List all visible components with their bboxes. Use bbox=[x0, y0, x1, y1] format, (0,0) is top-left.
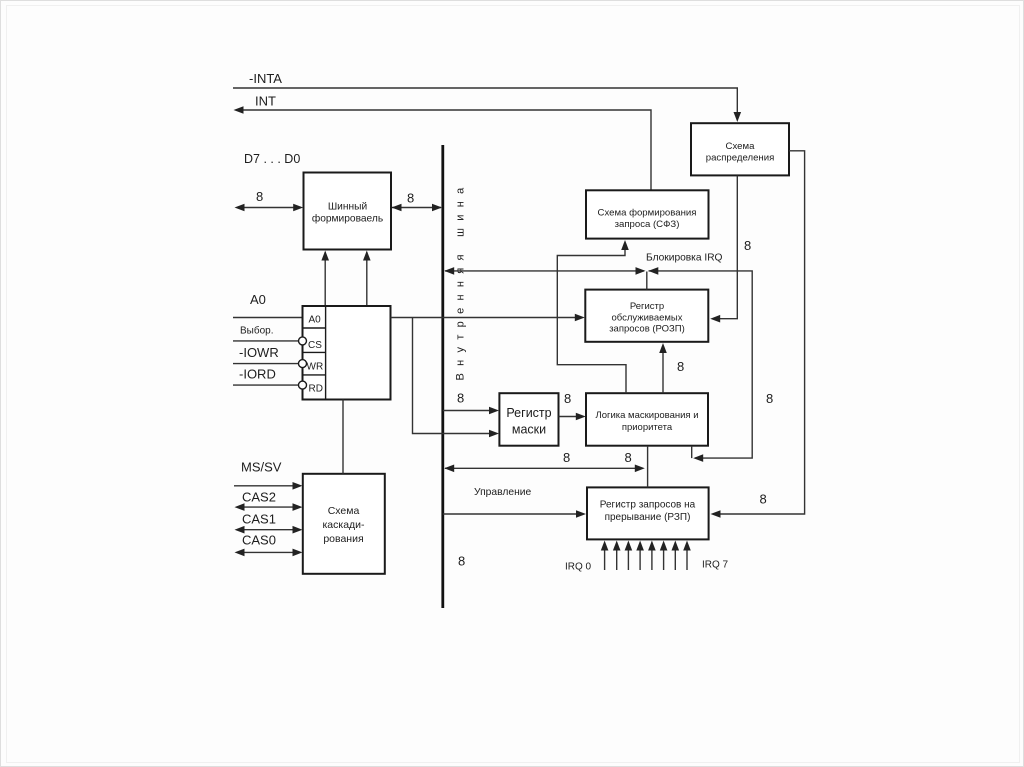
arrow left INT bbox=[234, 106, 244, 114]
svg-text:прерывание (РЗП): прерывание (РЗП) bbox=[605, 512, 691, 523]
wire CS input bbox=[233, 340, 298, 342]
svg-text:Регистр: Регистр bbox=[506, 406, 551, 420]
wire IRQ6 bbox=[674, 548, 676, 570]
svg-text:8: 8 bbox=[564, 391, 571, 406]
svg-text:маски: маски bbox=[512, 423, 546, 437]
svg-text:8: 8 bbox=[563, 450, 570, 465]
block Схема распределения bbox=[691, 123, 789, 175]
svg-text:8: 8 bbox=[625, 450, 632, 465]
svg-text:8: 8 bbox=[744, 238, 751, 253]
wire bus to РЗП left bbox=[443, 513, 582, 515]
wire блокировка right segment bbox=[649, 271, 753, 458]
svg-text:распределения: распределения bbox=[706, 153, 775, 164]
svg-text:-IOWR: -IOWR bbox=[239, 345, 279, 360]
svg-text:8: 8 bbox=[256, 189, 263, 204]
svg-text:CAS1: CAS1 bbox=[242, 512, 276, 527]
wire блокировка to РОЗП top bbox=[646, 272, 648, 290]
svg-text:A0: A0 bbox=[250, 292, 266, 307]
svg-text:Логика маскирования и: Логика маскирования и bbox=[595, 410, 698, 421]
svg-text:IRQ 0: IRQ 0 bbox=[565, 562, 592, 573]
wire распределения right to РЗП right bbox=[713, 151, 805, 514]
svg-text:IRQ 7: IRQ 7 bbox=[702, 560, 729, 571]
svg-text:WR: WR bbox=[307, 362, 324, 373]
svg-text:Выбор.: Выбор. bbox=[240, 325, 274, 337]
svg-text:Внутренняя шина: Внутренняя шина bbox=[455, 181, 467, 381]
wire IRQ7 bbox=[686, 548, 688, 570]
svg-text:CAS0: CAS0 bbox=[242, 533, 276, 548]
wire IRQ4 bbox=[651, 548, 653, 570]
wire RD input bbox=[233, 384, 298, 386]
pin CS inversion bubble bbox=[299, 337, 307, 345]
internal bus (Внутренняя шина) bbox=[441, 145, 444, 608]
svg-text:Схема: Схема bbox=[726, 141, 756, 152]
wire control block to bus driver (2 verticals) bbox=[324, 252, 326, 306]
block РОЗП bbox=[585, 290, 708, 342]
svg-text:8: 8 bbox=[766, 391, 773, 406]
wire IRQ0 bbox=[604, 548, 606, 570]
wire логика to РЗП top bbox=[647, 446, 649, 488]
svg-text:Схема формирования: Схема формирования bbox=[598, 208, 697, 219]
svg-text:Схема: Схема bbox=[328, 505, 360, 517]
svg-text:8: 8 bbox=[407, 191, 414, 206]
svg-text:A0: A0 bbox=[309, 315, 322, 326]
wire priority logic to СФЗ (Z path) bbox=[557, 243, 626, 393]
svg-text:Регистр: Регистр bbox=[630, 301, 664, 312]
wire IRQ5 bbox=[663, 548, 665, 570]
svg-text:запросов (РОЗП): запросов (РОЗП) bbox=[609, 324, 685, 335]
wire распределения bottom to РОЗП right bbox=[713, 176, 737, 319]
svg-text:каскади-: каскади- bbox=[322, 519, 365, 531]
block control/read-write logic with pins A0 CS WR RD bbox=[303, 306, 391, 400]
svg-text:CS: CS bbox=[308, 340, 322, 351]
wire control block to bus driver v2 bbox=[366, 252, 368, 306]
wire IRQ3 bbox=[639, 548, 641, 570]
block СФЗ bbox=[586, 190, 709, 238]
svg-text:MS/SV: MS/SV bbox=[241, 460, 282, 475]
svg-text:Управление: Управление bbox=[474, 487, 532, 498]
wire branch down to mask register bbox=[413, 318, 496, 434]
arrow down into Схема распределения bbox=[734, 112, 742, 122]
svg-text:CAS2: CAS2 bbox=[242, 490, 276, 505]
wire -INTA from CPU to Схема распределения top bbox=[233, 88, 737, 114]
svg-text:8: 8 bbox=[677, 359, 684, 374]
wire CAS1 double arrow bbox=[238, 529, 299, 531]
wire IRQ1 bbox=[616, 548, 618, 570]
pin WR inversion bubble bbox=[299, 360, 307, 368]
svg-text:8: 8 bbox=[457, 391, 464, 406]
wire IRQ2 bbox=[627, 548, 629, 570]
block РЗП bbox=[587, 487, 709, 539]
wire CAS0 double arrow bbox=[238, 551, 299, 553]
wire data bus right double arrow bbox=[392, 207, 441, 209]
svg-text:D7 . . . D0: D7 . . . D0 bbox=[244, 152, 300, 166]
wire data bus left double arrow bbox=[238, 207, 301, 209]
wire mask register to priority logic bbox=[559, 416, 583, 418]
pin RD inversion bubble bbox=[299, 381, 307, 389]
block Логика маскирования и приоритета bbox=[586, 393, 708, 446]
svg-text:формироваель: формироваель bbox=[312, 213, 383, 225]
svg-text:-INTA: -INTA bbox=[249, 71, 282, 86]
block Регистр маски bbox=[499, 393, 558, 446]
svg-text:обслуживаемых: обслуживаемых bbox=[611, 313, 682, 324]
svg-text:запроса (СФЗ): запроса (СФЗ) bbox=[615, 219, 680, 230]
wire stub логика bottom bbox=[691, 446, 693, 458]
wire cascade block to control block bbox=[342, 400, 344, 474]
wire CAS2 double arrow bbox=[238, 506, 299, 508]
svg-text:INT: INT bbox=[255, 94, 276, 109]
wire bus to mask register bbox=[443, 410, 495, 412]
svg-text:8: 8 bbox=[760, 492, 767, 507]
wire блокировка bus segment double arrow bbox=[445, 270, 644, 272]
svg-text:Шинный: Шинный bbox=[328, 202, 367, 213]
wire управление double arrow bbox=[445, 467, 643, 469]
svg-text:Регистр запросов на: Регистр запросов на bbox=[600, 500, 696, 511]
wire A0 input bbox=[233, 317, 303, 319]
wire MS/SV input bbox=[234, 485, 299, 487]
wire INT from СФЗ top to CPU bbox=[237, 110, 651, 190]
block Шинный формироваель bbox=[304, 173, 392, 250]
wire priority logic to РОЗП bottom bbox=[662, 346, 664, 393]
svg-text:рования: рования bbox=[323, 533, 363, 545]
svg-text:приоритета: приоритета bbox=[622, 422, 673, 433]
wire control block right output to РОЗП left bbox=[391, 317, 582, 319]
block Схема каскадирования bbox=[303, 474, 385, 574]
svg-text:8: 8 bbox=[458, 554, 465, 569]
wire WR input bbox=[233, 363, 298, 365]
svg-text:Блокировка IRQ: Блокировка IRQ bbox=[646, 253, 723, 264]
svg-text:RD: RD bbox=[309, 384, 323, 395]
svg-text:-IORD: -IORD bbox=[239, 367, 276, 382]
